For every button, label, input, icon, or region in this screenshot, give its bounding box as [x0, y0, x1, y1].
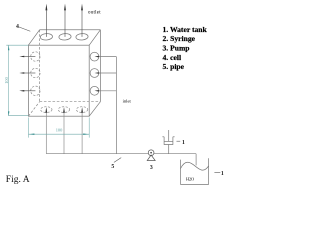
water surface wave — [181, 162, 209, 170]
water tank beaker bottom — [181, 184, 209, 186]
label 1 dash (water tank) — [214, 171, 220, 173]
bottom dimension line — [29, 133, 89, 135]
syringe plunger rod — [168, 130, 170, 141]
syringe barrel — [164, 137, 173, 145]
cell back right edge — [99, 30, 101, 102]
vertical dimension extension bottom — [9, 115, 29, 117]
cell body front face — [28, 45, 89, 116]
syringe flange left — [162, 136, 164, 138]
label 5 leader — [114, 158, 121, 163]
main bottom pipe — [46, 153, 196, 155]
svg-text:inlet: inlet — [123, 99, 132, 104]
cell hidden back bottom edge — [40, 101, 101, 103]
svg-text:100: 100 — [56, 127, 63, 132]
syringe piston — [164, 140, 173, 142]
right hole 3 — [90, 86, 99, 95]
svg-text:4. cell: 4. cell — [163, 53, 182, 62]
water tank beaker right wall — [208, 158, 210, 184]
right hole 2 — [90, 69, 99, 78]
right in-arrow 3 — [99, 90, 117, 92]
pump body circle — [148, 150, 154, 156]
svg-text:4: 4 — [16, 24, 19, 30]
svg-text:3: 3 — [150, 165, 153, 171]
bottom dimension extension right — [88, 118, 90, 138]
bottom hidden hole 1 — [41, 107, 52, 113]
left hidden hole 1 — [31, 52, 40, 61]
bottom dim arrow left — [29, 134, 35, 135]
cell top-right depth edge — [89, 30, 100, 45]
svg-text:5. pipe: 5. pipe — [163, 62, 185, 71]
bottom feed riser 2 with up arrow — [63, 113, 65, 154]
svg-text:100: 100 — [4, 76, 9, 83]
top hole 1 — [40, 33, 53, 40]
bottom dimension extension left — [27, 118, 29, 138]
left out-arrow 1 — [24, 56, 35, 58]
outlet arrow 3 — [81, 10, 83, 37]
top hole 2 — [59, 33, 72, 40]
syringe flange right — [173, 136, 175, 138]
left out-arrow 2 — [24, 72, 35, 74]
right hole 1 — [90, 52, 99, 61]
left out-arrow 3 — [24, 90, 35, 92]
pump base triangle — [147, 155, 155, 161]
water tank beaker left wall — [180, 160, 182, 185]
cell hidden bottom-left depth edge — [28, 102, 39, 117]
cell back top edge — [40, 29, 101, 31]
bottom feed riser 3 with up arrow — [81, 113, 83, 154]
bottom hidden hole 3 — [76, 107, 87, 113]
svg-text:outlet: outlet — [88, 11, 101, 16]
svg-text:5: 5 — [111, 164, 114, 170]
svg-text:Fig. A: Fig. A — [6, 175, 30, 185]
outlet arrow 2 — [64, 10, 66, 37]
label 2 dash (syringe) — [177, 140, 181, 142]
inlet manifold vertical pipe — [115, 57, 117, 154]
vertical dim arrow down — [8, 111, 9, 116]
svg-text:1: 1 — [221, 171, 224, 177]
label 4 leader — [19, 27, 31, 31]
pump hub dot — [150, 152, 152, 154]
vertical dimension line — [8, 45, 10, 116]
left hidden hole 3 — [31, 86, 40, 95]
top hole 3 — [76, 33, 89, 40]
right in-arrow 2 — [99, 72, 117, 74]
bottom feed riser 1 with up arrow — [45, 113, 47, 154]
outlet arrow 1 — [45, 10, 47, 37]
cell top-left depth edge — [28, 30, 39, 45]
vertical dimension extension top — [6, 44, 28, 46]
pipe drop into beaker — [195, 154, 197, 166]
svg-text:H2O: H2O — [186, 176, 195, 181]
syringe outlet tube — [168, 145, 170, 154]
svg-text:1: 1 — [182, 140, 185, 146]
bottom hidden hole 2 — [58, 107, 69, 113]
bottom dim arrow right — [83, 134, 89, 135]
vertical dim arrow up — [8, 45, 9, 50]
left hidden hole 2 — [31, 68, 40, 77]
svg-text:3. Pump: 3. Pump — [163, 44, 190, 53]
cell bottom-right depth edge — [89, 102, 100, 117]
svg-text:1. Water tank: 1. Water tank — [163, 25, 208, 34]
svg-text:2. Syringe: 2. Syringe — [163, 34, 196, 43]
cell hidden back-left vertical edge — [39, 30, 41, 102]
right in-arrow 1 — [99, 56, 117, 58]
